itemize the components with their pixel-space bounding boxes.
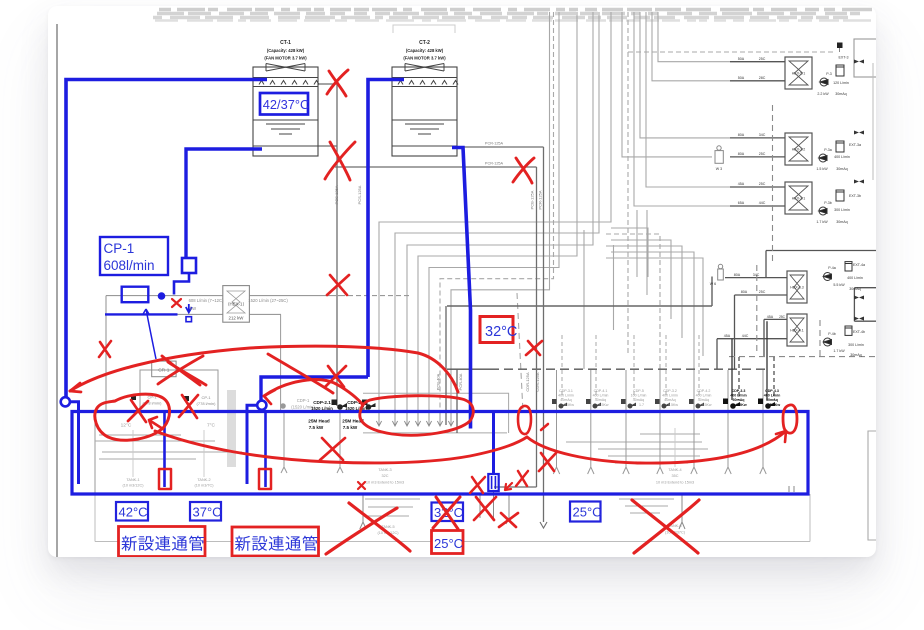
small left arrow in loop — [149, 417, 163, 429]
valve drop — [492, 412, 495, 475]
svg-text:P-3a: P-3a — [824, 148, 832, 152]
TANK-4 internal drop pipes — [553, 370, 766, 474]
tiny x at CP-1 — [172, 299, 181, 307]
svg-text:5.5Kw: 5.5Kw — [668, 403, 678, 407]
swoosh B to right ellipse with arrow — [527, 431, 786, 463]
svg-text:CDP-3.2: CDP-3.2 — [663, 389, 677, 393]
svg-text:44C: 44C — [742, 334, 749, 338]
svg-text:1520 L/min: 1520 L/min — [345, 406, 367, 411]
X at x337 mid — [327, 275, 349, 295]
dividers — [163, 412, 166, 488]
drawing left edge line — [56, 24, 58, 557]
25C blue box right — [570, 502, 601, 522]
svg-text:CT-1: CT-1 — [280, 40, 291, 46]
svg-text:PCS-125A: PCS-125A — [357, 185, 362, 204]
svg-text:HEX-3.1: HEX-3.1 — [792, 197, 806, 201]
CDP suction drops in tank — [281, 314, 343, 473]
svg-text:CDP-1: CDP-1 — [297, 398, 310, 403]
sprinkler drop arrows — [376, 412, 453, 426]
42/37C box on CT-1 — [260, 93, 308, 115]
tick — [541, 424, 548, 430]
circle2 + elbow into tank — [257, 401, 266, 410]
svg-text:TANK-4: TANK-4 — [668, 468, 681, 472]
tank outline — [72, 412, 808, 495]
svg-text:PCS-125A: PCS-125A — [334, 185, 339, 204]
CDP-1/2.1/2.2 pump symbols — [332, 400, 376, 410]
svg-text:80A: 80A — [738, 133, 745, 137]
tiny x on tank bottom — [358, 482, 365, 489]
svg-text:CDP-4.2: CDP-4.2 — [697, 389, 711, 393]
groups get inserted here — [57, 10, 888, 558]
svg-text:5.5 kW: 5.5 kW — [833, 283, 845, 287]
PCB/PCR-40A verticals — [445, 306, 447, 425]
svg-text:P-4b: P-4b — [828, 332, 836, 336]
pumps P-3x and EXT tanks — [819, 65, 852, 346]
svg-text:CDP-4.1: CDP-4.1 — [594, 389, 608, 393]
svg-text:CP-1: CP-1 — [104, 241, 135, 256]
svg-text:1520 L/min: 1520 L/min — [311, 406, 333, 411]
svg-text:W 6: W 6 — [710, 282, 716, 286]
svg-text:30mAq: 30mAq — [849, 287, 860, 291]
svg-text:PCB-125A: PCB-125A — [530, 190, 535, 209]
HEX-1 area — [106, 296, 412, 412]
svg-text:W 3: W 3 — [716, 167, 722, 171]
X below tank 1 — [474, 497, 496, 520]
25C red box bottom — [432, 531, 464, 554]
svg-text:P-4a: P-4a — [828, 266, 836, 270]
svg-text:CDP-5: CDP-5 — [633, 389, 644, 393]
big X over TANK-6 — [632, 500, 699, 553]
svg-text:608l/min: 608l/min — [104, 258, 155, 273]
svg-text:400 L/min: 400 L/min — [696, 394, 712, 398]
37C box — [190, 502, 221, 521]
svg-text:5.5Kw: 5.5Kw — [736, 403, 747, 407]
small valve bowties — [854, 60, 864, 321]
top cut-off text noise band — [153, 10, 876, 21]
sprinkler big ellipse — [360, 396, 473, 436]
svg-text:32C: 32C — [382, 474, 389, 478]
svg-text:65A: 65A — [738, 201, 745, 205]
CT-1 gray tail — [318, 84, 337, 406]
pump row labels — [558, 389, 712, 407]
thin curve up to pump with arrowhead — [146, 309, 156, 359]
svg-text:25M Head: 25M Head — [308, 419, 330, 424]
tank level leader lines — [133, 428, 675, 477]
diagonal stroke near CDP — [268, 354, 333, 393]
svg-text:5.5Kw: 5.5Kw — [702, 403, 712, 407]
rotated pipe labels — [334, 185, 543, 391]
svg-text:PCR-125A: PCR-125A — [485, 162, 504, 166]
X over bottom 32C box — [433, 497, 460, 529]
svg-text:212 kW: 212 kW — [229, 316, 245, 321]
42C box — [116, 502, 148, 521]
svg-text:TANK-1: TANK-1 — [126, 478, 139, 482]
svg-text:P-3b: P-3b — [824, 201, 832, 205]
dashed boundary right — [729, 105, 876, 357]
svg-text:12°C: 12°C — [121, 423, 132, 429]
X beta on CP text — [179, 395, 198, 418]
svg-text:300 L/min: 300 L/min — [834, 208, 850, 212]
svg-text:608 L/min (7~12C): 608 L/min (7~12C) — [189, 298, 224, 303]
svg-text:TANK-2: TANK-2 — [197, 478, 210, 482]
svg-text:CDR-125A: CDR-125A — [525, 372, 530, 392]
X below tank 2 — [499, 513, 518, 527]
svg-text:45A: 45A — [767, 315, 774, 319]
red rects on dividers — [159, 469, 171, 489]
X near CT-1 bottom right — [325, 142, 355, 180]
svg-text:(10 m3/12C): (10 m3/12C) — [122, 484, 144, 488]
svg-text:120 L/min: 120 L/min — [833, 81, 849, 85]
svg-text:HEX-3.2: HEX-3.2 — [792, 148, 806, 152]
left pit — [95, 361, 218, 494]
X over CDP-2.1 — [325, 366, 346, 387]
svg-text:40mAq: 40mAq — [560, 398, 571, 402]
svg-text:25C: 25C — [759, 152, 766, 156]
svg-text:7.5 kW: 7.5 kW — [343, 425, 358, 430]
svg-text:1.7 kW: 1.7 kW — [816, 220, 828, 224]
svg-text:HEX-3.3: HEX-3.3 — [790, 286, 804, 290]
black square + dashes top right — [837, 43, 843, 49]
water surface lines left tanks — [95, 434, 708, 516]
big gray rect top right (clipped) — [854, 39, 888, 77]
svg-text:400 L/min: 400 L/min — [593, 394, 609, 398]
gray standpipe strip — [227, 390, 236, 467]
svg-text:30mAq: 30mAq — [733, 398, 745, 402]
diagonal D under sprinklers — [155, 431, 527, 463]
X under small ellipse — [539, 453, 556, 471]
svg-text:1.7: 1.7 — [639, 403, 644, 407]
svg-text:(Capacity: 428 kW): (Capacity: 428 kW) — [406, 48, 444, 53]
svg-text:5.5Kw: 5.5Kw — [564, 403, 574, 407]
svg-text:5.5Kw: 5.5Kw — [770, 403, 781, 407]
svg-text:400 L/min: 400 L/min — [847, 276, 863, 280]
svg-text:CDP-3.3: CDP-3.3 — [732, 389, 746, 393]
CT-2 feed riser — [368, 80, 404, 378]
svg-text:P-3: P-3 — [826, 72, 832, 76]
svg-text:10 m3 Extend to 15m3: 10 m3 Extend to 15m3 — [656, 481, 694, 485]
svg-text:30mAq: 30mAq — [836, 167, 847, 171]
svg-text:7.5 kW: 7.5 kW — [309, 425, 324, 430]
32C red box upper — [480, 317, 513, 343]
svg-text:PCR-125A: PCR-125A — [538, 190, 543, 209]
svg-text:7°C: 7°C — [207, 423, 216, 429]
svg-text:42°C: 42°C — [119, 505, 148, 520]
svg-text:40mAq: 40mAq — [664, 398, 675, 402]
small vertical ellipse mid — [518, 406, 531, 434]
X left of valve — [470, 477, 485, 493]
svg-text:(FAN MOTOR 3.7 kW): (FAN MOTOR 3.7 kW) — [403, 56, 446, 61]
header to circle2 — [261, 377, 368, 400]
svg-text:34C: 34C — [753, 273, 760, 277]
X alpha in loop — [128, 400, 148, 422]
svg-text:100 L/min: 100 L/min — [631, 394, 647, 398]
svg-text:400 L/min: 400 L/min — [558, 394, 574, 398]
svg-text:44C: 44C — [759, 201, 766, 205]
svg-text:HEX-5.1: HEX-5.1 — [792, 72, 806, 76]
small tick marks right bottom of tank — [789, 486, 794, 492]
CP pumps in pit — [131, 395, 189, 401]
svg-text:1.7 kW: 1.7 kW — [833, 349, 845, 353]
svg-text:30mAq: 30mAq — [835, 92, 846, 96]
svg-text:EXT-3a: EXT-3a — [849, 143, 861, 147]
svg-text:EXT-4b: EXT-4b — [853, 330, 865, 334]
small arrow near valve — [505, 483, 512, 490]
sprinkler frame — [363, 393, 509, 433]
svg-text:25C: 25C — [759, 182, 766, 186]
below-tank drop pipes — [360, 491, 685, 529]
shinsetsu boxes — [119, 527, 206, 557]
svg-text:25C: 25C — [759, 290, 766, 294]
svg-text:40mAq: 40mAq — [633, 398, 644, 402]
W boxes — [715, 146, 723, 280]
svg-text:80A: 80A — [738, 152, 745, 156]
X near CT-1 top right — [327, 70, 348, 96]
CT-2 — [392, 67, 457, 156]
svg-text:30mAq: 30mAq — [766, 398, 778, 402]
X over CR-1 (with extra stroke) — [158, 356, 206, 385]
svg-text:HEX-4.1: HEX-4.1 — [790, 329, 804, 333]
svg-text:34C: 34C — [759, 133, 766, 137]
long arc A — [70, 346, 458, 392]
svg-text:25C: 25C — [779, 315, 786, 319]
faint box above CT-2 — [393, 25, 455, 33]
svg-text:PCR-125A: PCR-125A — [485, 142, 504, 146]
X right of 32C box — [526, 341, 542, 355]
svg-text:CDS-125A: CDS-125A — [535, 372, 540, 391]
big X over TANK-5 — [326, 503, 410, 554]
HEX-1 box — [223, 286, 250, 323]
right vertical ellipse — [783, 405, 797, 433]
svg-text:CDP-2.1: CDP-2.1 — [313, 400, 331, 405]
top-center vertical pipe bundle set1 — [379, 12, 703, 412]
X left of CR-1 — [99, 341, 111, 357]
svg-text:2.2 kW: 2.2 kW — [817, 92, 829, 96]
pit outline below tanks — [95, 494, 810, 542]
svg-text:30mAq: 30mAq — [850, 353, 861, 357]
arrowhead at arc A left end — [70, 383, 81, 392]
svg-text:32°C: 32°C — [485, 324, 517, 340]
right side gray box — [868, 431, 877, 540]
right HEX labels — [710, 56, 865, 358]
svg-text:400 L/min: 400 L/min — [764, 394, 781, 398]
svg-text:PCR-40A: PCR-40A — [458, 373, 463, 390]
CP-1 pump rect, dot — [122, 287, 149, 303]
svg-text:300 L/min: 300 L/min — [848, 343, 864, 347]
PCR-125A runs — [457, 147, 544, 522]
svg-text:1520 L/min (27~25C): 1520 L/min (27~25C) — [248, 298, 288, 303]
svg-text:25C: 25C — [759, 57, 766, 61]
svg-text:400 L/min: 400 L/min — [662, 394, 678, 398]
svg-text:⟨HEX-1⟩: ⟨HEX-1⟩ — [228, 302, 245, 307]
svg-text:30mAq: 30mAq — [836, 220, 847, 224]
svg-text:45A: 45A — [738, 182, 745, 186]
svg-text:10 m3 Extend to 15m3: 10 m3 Extend to 15m3 — [366, 481, 404, 485]
svg-text:CR-1: CR-1 — [158, 368, 170, 374]
svg-text:(778 l/min): (778 l/min) — [197, 401, 217, 406]
CP-1 608l/min box — [100, 237, 168, 275]
svg-text:45A: 45A — [724, 334, 731, 338]
svg-text:(FAN MOTOR 3.7 kW): (FAN MOTOR 3.7 kW) — [264, 56, 307, 61]
thin blue pipe under pump — [105, 313, 178, 315]
X on PCR line corner — [513, 158, 534, 183]
svg-text:35C: 35C — [672, 474, 679, 478]
svg-text:1.5 kW: 1.5 kW — [816, 167, 828, 171]
X inside tank below CDP-2.2 — [320, 438, 345, 460]
svg-text:CP-1: CP-1 — [201, 395, 211, 400]
12C loop — [95, 394, 170, 440]
svg-text:40mAq: 40mAq — [595, 398, 606, 402]
svg-text:400 L/min: 400 L/min — [730, 394, 747, 398]
svg-text:400 L/min: 400 L/min — [834, 155, 850, 159]
main supply: left riser + top run into CT-1 — [66, 80, 267, 398]
svg-text:80A: 80A — [741, 290, 748, 294]
svg-text:25°C: 25°C — [573, 505, 602, 520]
long dark horizontals — [447, 305, 712, 307]
svg-text:25°C: 25°C — [434, 536, 463, 551]
svg-text:EXT-4a: EXT-4a — [853, 263, 865, 267]
HEX units right — [785, 57, 812, 346]
svg-text:kW: kW — [190, 306, 196, 311]
svg-text:(10 m3/7C): (10 m3/7C) — [195, 484, 215, 488]
hump C over CDP with arrow — [264, 380, 363, 405]
svg-text:EXT-3b: EXT-3b — [849, 194, 861, 198]
svg-text:28C: 28C — [759, 76, 766, 80]
middle HEX feed verticals set2 — [622, 12, 834, 356]
svg-text:80A: 80A — [734, 273, 741, 277]
svg-text:(Capacity: 428 kW): (Capacity: 428 kW) — [267, 48, 305, 53]
CT-2 outlet — [452, 148, 471, 429]
black pump feeds CDP-3.3/4.3 — [732, 321, 767, 400]
32C box bottom (crossed) — [432, 503, 464, 522]
svg-text:CDP-4.3: CDP-4.3 — [765, 389, 779, 393]
small down arrow + square — [186, 304, 192, 313]
svg-text:40mAq: 40mAq — [698, 398, 709, 402]
X at valve — [516, 471, 528, 486]
CT-1 outlet down to strainer — [186, 149, 262, 258]
svg-text:CDP-3.1: CDP-3.1 — [559, 389, 573, 393]
CT-1 — [253, 67, 318, 156]
svg-text:TANK-3: TANK-3 — [378, 468, 391, 472]
dashed discharge stubs — [562, 335, 699, 399]
svg-text:PCB-40A: PCB-40A — [436, 373, 441, 390]
svg-text:42/37°C: 42/37°C — [263, 97, 309, 112]
svg-text:EXT-3: EXT-3 — [839, 56, 849, 60]
svg-text:5.5Kw: 5.5Kw — [599, 403, 609, 407]
circle1 + elbow into tank — [61, 397, 70, 406]
pump row symbols CDP-3.x/4.x — [552, 399, 704, 409]
svg-text:CT-2: CT-2 — [419, 40, 430, 46]
svg-text:50A: 50A — [738, 76, 745, 80]
svg-text:37°C: 37°C — [193, 505, 222, 520]
dark HEX port segments — [712, 62, 876, 369]
svg-text:50A: 50A — [738, 57, 745, 61]
